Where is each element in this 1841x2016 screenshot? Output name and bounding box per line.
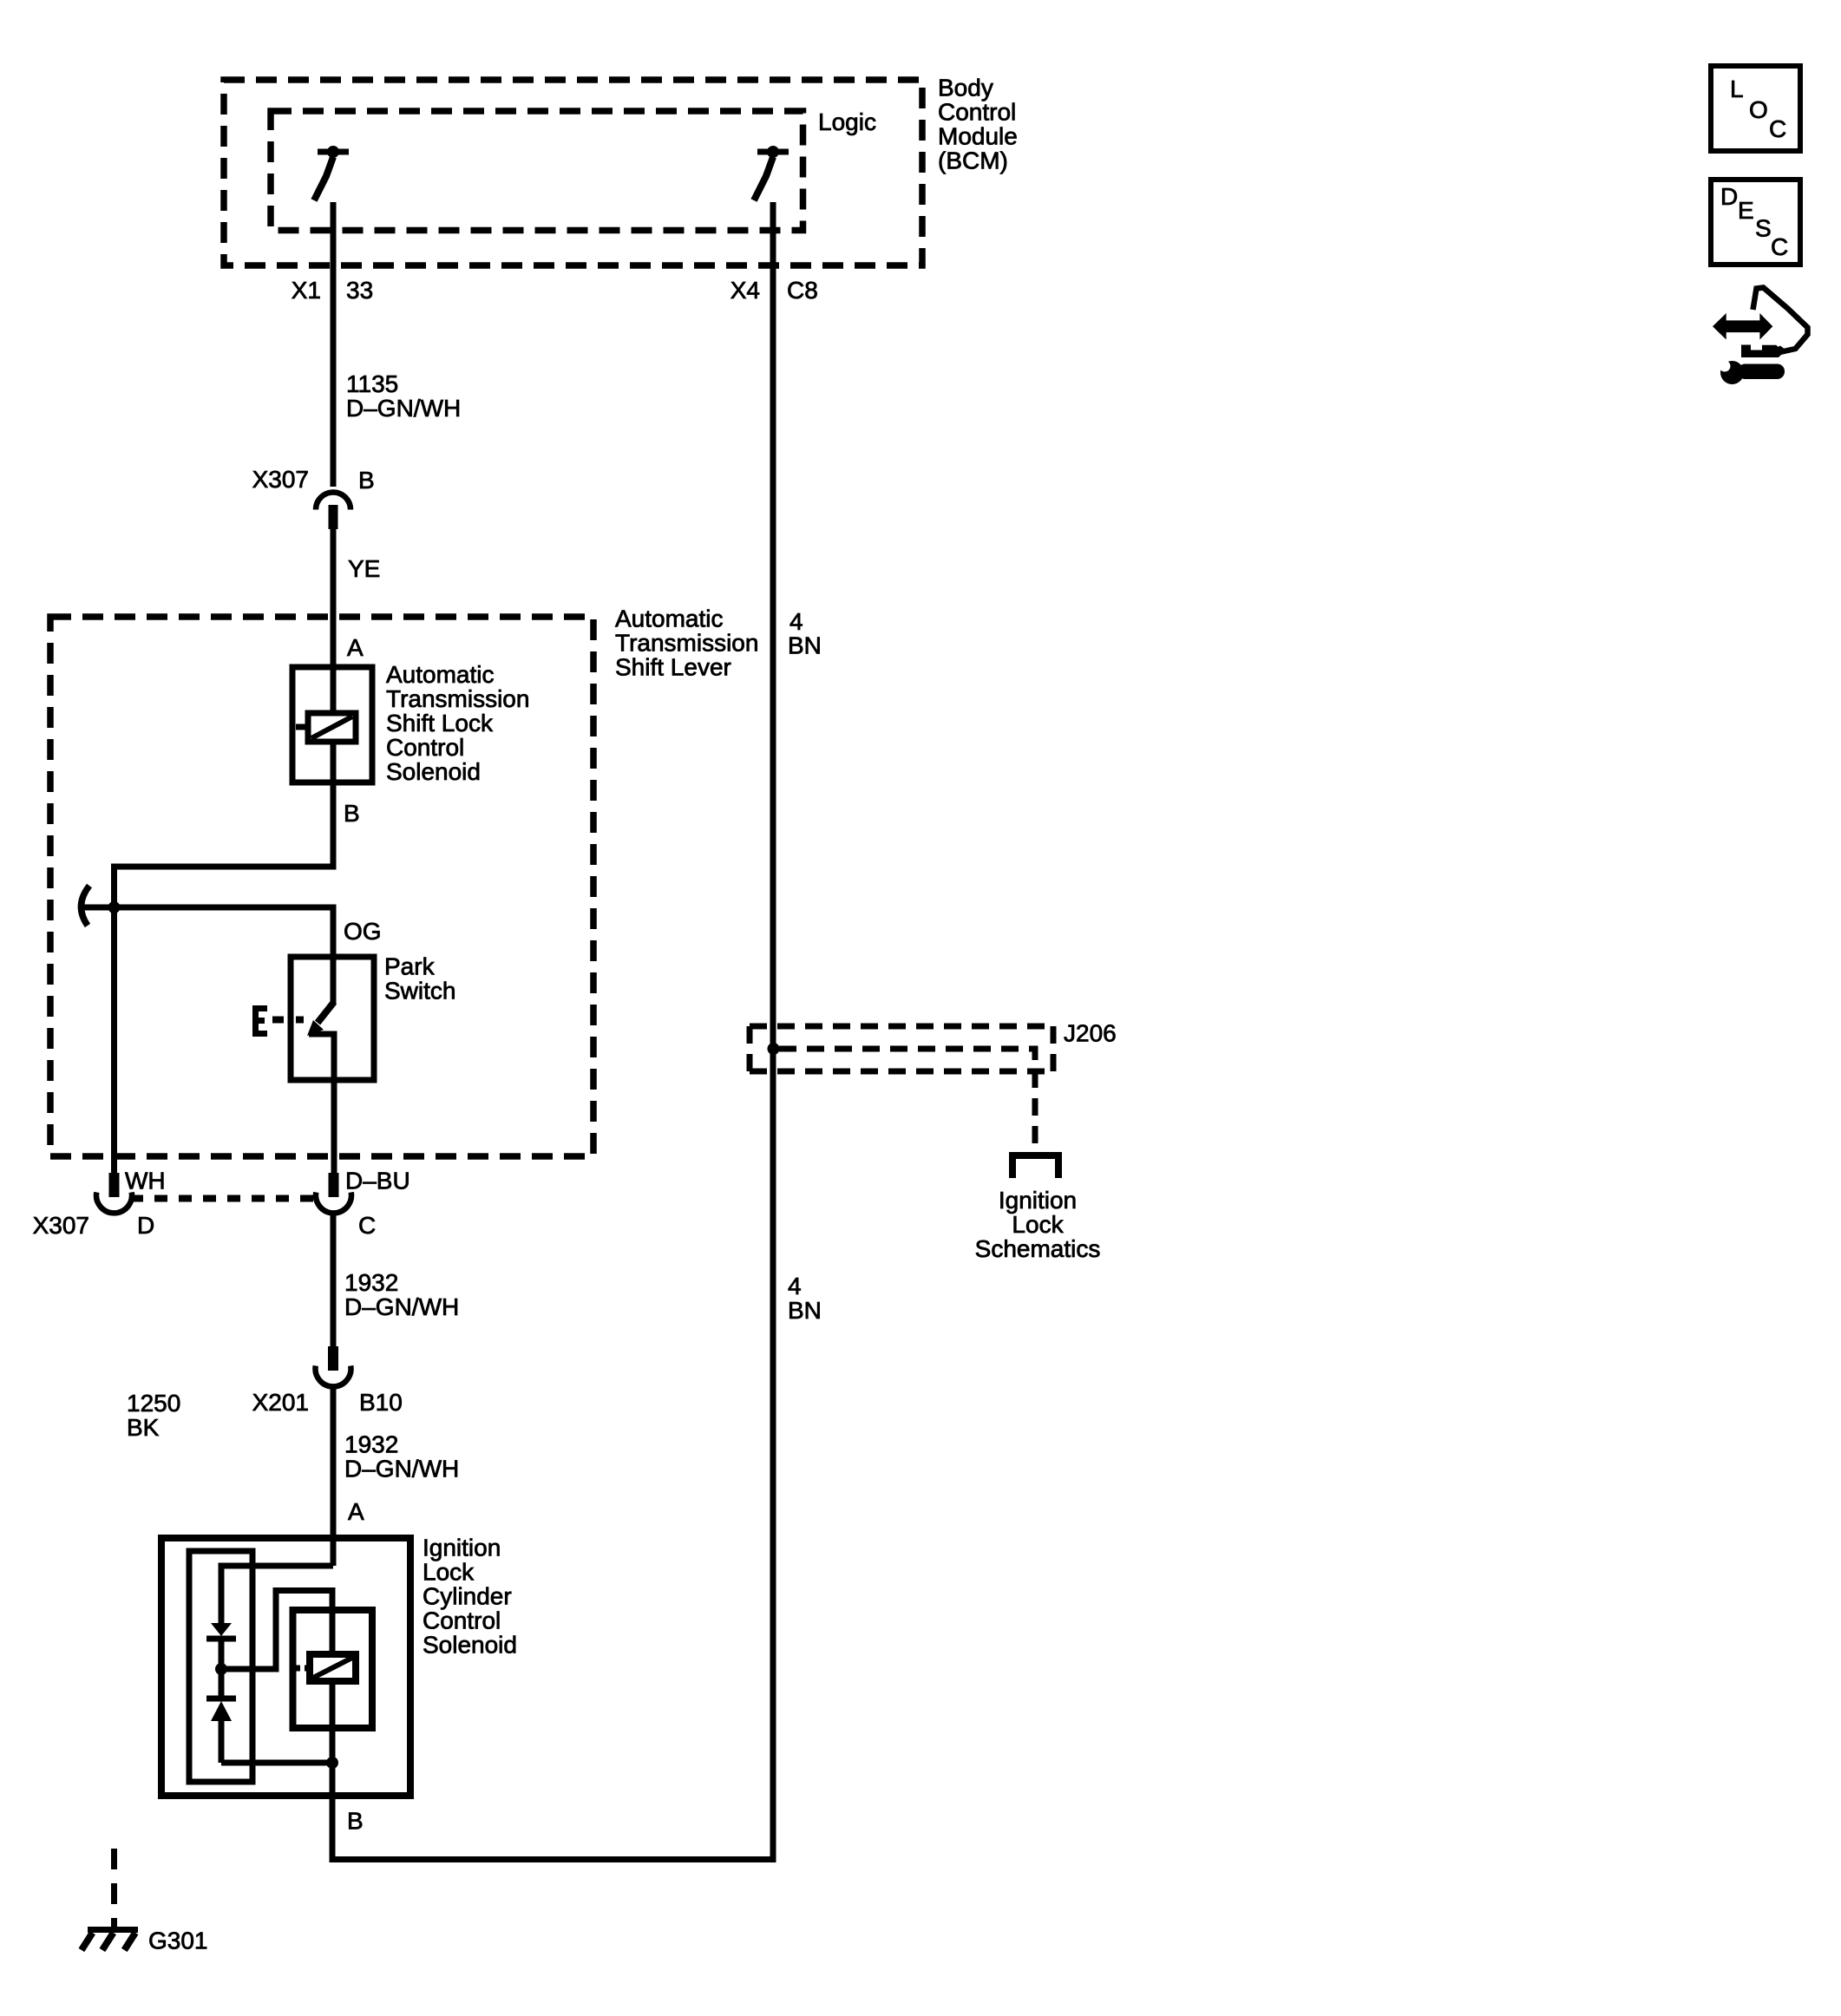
- connector X307 C (male pin + female cup): [316, 1173, 351, 1213]
- wire: BCM X1-33 to connector X307 B: [331, 202, 337, 487]
- wire: solenoid B down, left, down to junction: [115, 782, 334, 907]
- svg-text:Cylinder: Cylinder: [423, 1583, 512, 1610]
- label E with dashed link: [252, 1005, 304, 1037]
- coil enclosure box: [293, 1610, 373, 1728]
- svg-text:S: S: [1755, 215, 1772, 242]
- wire: park switch down to X307 C: [331, 1080, 337, 1173]
- wire: diode junction to coil top (Z wire): [221, 1591, 332, 1670]
- diode D2 (cathode up): [206, 1669, 236, 1763]
- connector X307 B (female arc + male pin): [316, 493, 351, 530]
- svg-text:Schematics: Schematics: [975, 1235, 1101, 1262]
- ATSL solenoid box: [292, 667, 372, 782]
- diode junction dot: [215, 1663, 227, 1675]
- label Park Switch: [384, 953, 455, 1005]
- svg-text:A: A: [348, 1498, 364, 1525]
- svg-text:D–GN/WH: D–GN/WH: [344, 1456, 459, 1483]
- Ignition Lock Cylinder Control Solenoid box: [161, 1538, 410, 1796]
- svg-text:C8: C8: [787, 277, 818, 304]
- wire label 1932 D-GN/WH (upper): [344, 1269, 459, 1320]
- labels X201 B10: [252, 1389, 403, 1416]
- ATSL solenoid coil symbol: [296, 667, 356, 782]
- wire label 4 BN (lower): [788, 1273, 822, 1324]
- svg-text:Control: Control: [938, 99, 1016, 126]
- svg-text:Ignition: Ignition: [423, 1535, 501, 1561]
- svg-text:BK: BK: [127, 1414, 160, 1441]
- svg-text:Shift Lever: Shift Lever: [615, 654, 731, 681]
- wire label 4 BN (upper): [788, 608, 822, 659]
- svg-text:C: C: [1769, 115, 1786, 142]
- junction dot B: [326, 1757, 338, 1769]
- svg-text:Switch: Switch: [384, 978, 455, 1005]
- svg-text:Control: Control: [386, 734, 464, 761]
- svg-text:Control: Control: [423, 1607, 501, 1634]
- J206 splice dashed box: [750, 1026, 1053, 1071]
- svg-text:D–BU: D–BU: [345, 1168, 410, 1195]
- park switch blade and contact: [307, 957, 334, 1080]
- svg-text:Transmission: Transmission: [386, 685, 529, 712]
- label Automatic Transmission Shift Lock Control Solenoid: [386, 661, 529, 785]
- wire: BCM X4-C8 down to bottom (4 BN circuit): [770, 202, 776, 1860]
- svg-text:BN: BN: [788, 1297, 822, 1324]
- wire: X201 to ignition lock solenoid pin A: [331, 1386, 337, 1566]
- svg-text:Logic: Logic: [818, 108, 876, 135]
- svg-text:Solenoid: Solenoid: [386, 758, 481, 785]
- diode enclosure rect: [189, 1551, 252, 1782]
- svg-text:B: B: [347, 1808, 364, 1835]
- label Ignition Lock Schematics: [975, 1187, 1101, 1262]
- svg-text:WH: WH: [125, 1168, 166, 1195]
- svg-text:X201: X201: [252, 1389, 309, 1416]
- label Body Control Module (BCM): [938, 75, 1018, 174]
- wire: X307 B to shift lever box (YE): [331, 529, 337, 667]
- svg-text:33: 33: [346, 277, 373, 304]
- connector X201 B10 (male pin + female cup): [316, 1346, 351, 1386]
- svg-text:D: D: [1720, 183, 1738, 210]
- svg-text:J206: J206: [1064, 1020, 1117, 1047]
- svg-text:1932: 1932: [344, 1431, 398, 1458]
- wire: A pin internal horizontal to diode branch: [221, 1566, 333, 1623]
- svg-text:(BCM): (BCM): [938, 147, 1008, 174]
- svg-text:Automatic: Automatic: [386, 661, 495, 688]
- wire: ignition solenoid B to 4 BN wire: [332, 1796, 773, 1860]
- pin labels X1 33: [292, 277, 373, 304]
- svg-text:Transmission: Transmission: [615, 630, 758, 657]
- label Automatic Transmission Shift Lever: [615, 605, 758, 681]
- svg-text:4: 4: [788, 1273, 802, 1299]
- svg-text:X4: X4: [731, 277, 760, 304]
- ignition solenoid coil symbol: [296, 1654, 356, 1681]
- svg-text:E: E: [1738, 197, 1754, 224]
- svg-text:YE: YE: [348, 555, 380, 582]
- svg-text:D–GN/WH: D–GN/WH: [346, 395, 461, 422]
- labels X307 D C: [33, 1212, 377, 1239]
- svg-text:B10: B10: [359, 1389, 403, 1416]
- J206 junction dot: [768, 1043, 780, 1055]
- svg-text:Solenoid: Solenoid: [423, 1632, 517, 1659]
- svg-text:1135: 1135: [346, 370, 398, 397]
- svg-text:Module: Module: [938, 123, 1018, 150]
- svg-text:D–GN/WH: D–GN/WH: [344, 1293, 459, 1320]
- Park Switch box: [291, 957, 374, 1080]
- wire: X307 C to X201: [331, 1214, 337, 1346]
- wire label 1250 BK: [127, 1390, 180, 1441]
- connector X307 D (male pin + female cup): [96, 1173, 132, 1213]
- svg-text:B: B: [344, 800, 360, 827]
- svg-text:G301: G301: [148, 1928, 208, 1954]
- wire stub hook (circuit continues): [81, 886, 89, 926]
- svg-text:X307: X307: [252, 466, 309, 493]
- wire: coil bottom to box bottom with junction: [330, 1681, 336, 1796]
- svg-text:C: C: [1771, 233, 1788, 260]
- wire label 1932 D-GN/WH (lower): [344, 1431, 459, 1483]
- wire: junction to park switch (OG): [84, 907, 333, 957]
- svg-text:OG: OG: [344, 918, 382, 945]
- svg-text:B: B: [358, 467, 375, 494]
- wire label 1135 D-GN/WH: [346, 370, 461, 422]
- svg-text:X307: X307: [33, 1212, 89, 1239]
- label Ignition Lock Cylinder Control Solenoid: [423, 1535, 517, 1659]
- Automatic Transmission Shift Lever dashed box: [50, 617, 593, 1156]
- svg-text:Park: Park: [384, 953, 436, 980]
- junction dot: [108, 901, 121, 913]
- svg-text:4: 4: [789, 608, 803, 635]
- dashed line between X307 D and C: [130, 1195, 313, 1202]
- DESC reference icon box: [1711, 180, 1800, 265]
- switch S2 in BCM (right): [754, 146, 789, 200]
- labels X307 B: [252, 466, 375, 494]
- bottom internal wire diode to B wire: [221, 1760, 332, 1766]
- svg-text:Ignition: Ignition: [999, 1187, 1077, 1214]
- svg-text:Lock: Lock: [1012, 1211, 1064, 1238]
- svg-text:1932: 1932: [344, 1269, 398, 1296]
- navigation icon (double arrow, outline arrow, wrench): [1713, 288, 1808, 385]
- svg-text:A: A: [347, 634, 364, 661]
- J206 dashed stub to bracket: [779, 1049, 1058, 1178]
- svg-text:C: C: [358, 1212, 376, 1239]
- wire WH: junction down to X307 D: [111, 907, 117, 1173]
- LOC reference icon box: [1711, 66, 1800, 151]
- diode D1 (cathode down): [206, 1623, 236, 1669]
- svg-text:Body: Body: [938, 75, 993, 101]
- svg-text:BN: BN: [788, 632, 822, 659]
- svg-text:Lock: Lock: [423, 1559, 475, 1586]
- wire 1250 BK dashed segment to ground: [111, 1835, 117, 1928]
- svg-text:O: O: [1749, 96, 1768, 123]
- svg-text:Shift Lock: Shift Lock: [386, 710, 494, 736]
- switch S1 in BCM (left): [314, 146, 349, 200]
- BCM Logic inner dashed box: [271, 111, 803, 231]
- pin labels X4 C8: [731, 277, 818, 304]
- svg-text:Automatic: Automatic: [615, 605, 724, 632]
- ground G301 symbol: [82, 1930, 138, 1951]
- svg-text:X1: X1: [292, 277, 321, 304]
- svg-text:1250: 1250: [127, 1390, 180, 1417]
- BCM outer dashed box: [224, 80, 922, 265]
- svg-text:L: L: [1730, 75, 1744, 102]
- svg-text:D: D: [137, 1212, 154, 1239]
